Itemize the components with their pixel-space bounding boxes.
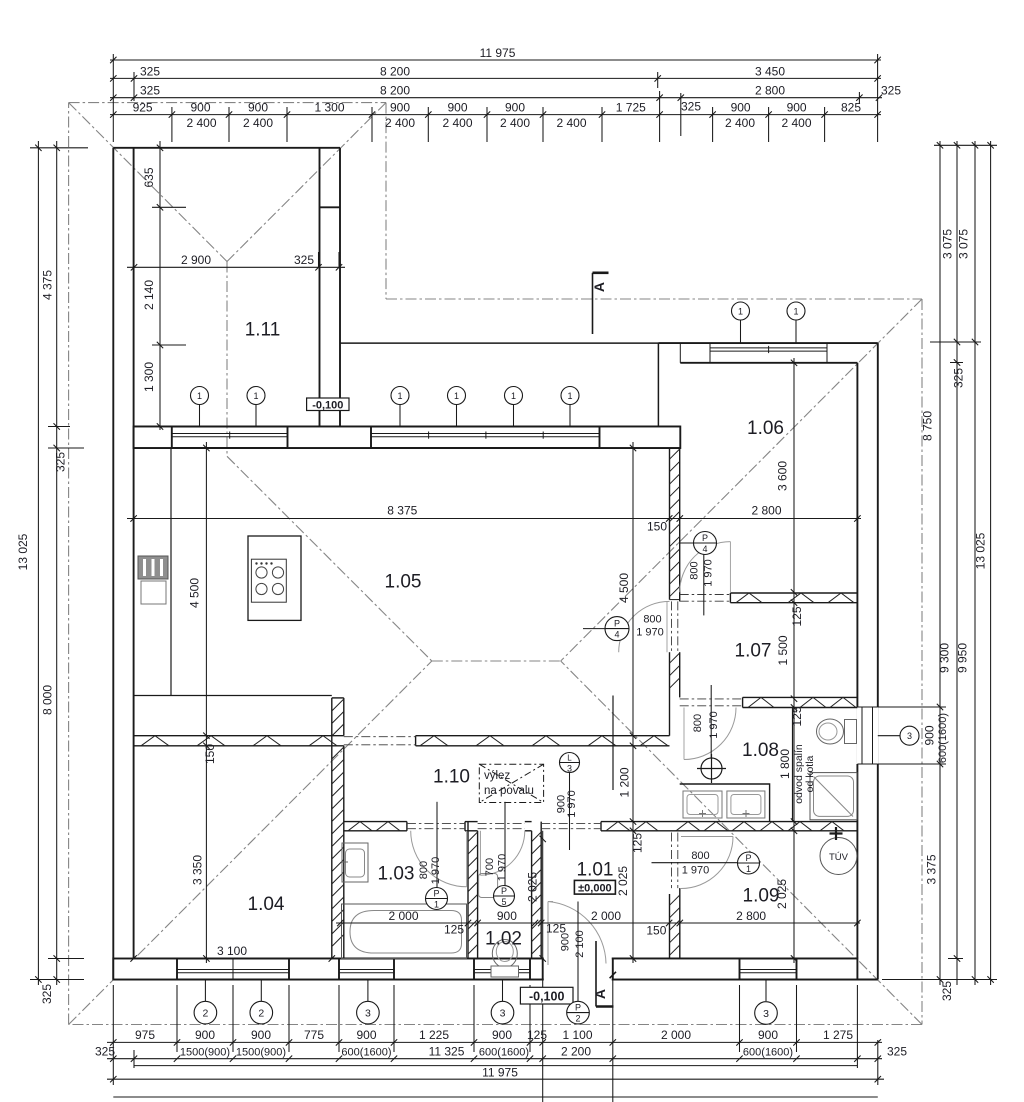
fridge vent slots — [145, 559, 162, 576]
ticks 3100 row on wall face — [130, 955, 335, 961]
svg-text:325: 325 — [54, 452, 68, 472]
svg-text:3: 3 — [907, 731, 912, 741]
svg-text:600(1600): 600(1600) — [743, 1047, 793, 1059]
boiler cross symbol — [830, 827, 843, 840]
partition 1.05/1.06 upper — [670, 448, 680, 601]
partition 1.05/1.07 lower — [670, 652, 680, 736]
svg-text:125: 125 — [790, 706, 804, 726]
svg-text:900: 900 — [248, 101, 268, 115]
left exterior wall inner face — [133, 148, 135, 959]
hatch partition column 1.05/1.10 — [332, 699, 344, 736]
svg-text:1 225: 1 225 — [419, 1028, 449, 1042]
left exterior wall outer face — [112, 148, 114, 980]
WALLS GROUP — [113, 148, 879, 981]
svg-text:900: 900 — [356, 1028, 376, 1042]
svg-text:1.05: 1.05 — [385, 572, 422, 593]
door arc 1.06-1.07 — [680, 542, 731, 593]
svg-text:P: P — [702, 533, 708, 543]
boiler TUV circle — [820, 838, 857, 875]
svg-text:1 970: 1 970 — [497, 854, 509, 882]
kitchen vertical dim 4500/150/3350 — [205, 442, 207, 963]
ticks right column1 — [937, 142, 943, 983]
flue divider wall 1.08 — [792, 708, 794, 822]
roof outline top edge of main block — [386, 298, 922, 300]
svg-text:2 025: 2 025 — [526, 872, 540, 902]
svg-text:1 200: 1 200 — [618, 767, 632, 797]
svg-text:900: 900 — [390, 101, 410, 115]
svg-text:P: P — [614, 619, 620, 629]
dim line top row3 8200+2800 — [110, 97, 882, 99]
svg-text:1: 1 — [434, 900, 439, 910]
ticks top row1 — [110, 57, 881, 63]
bottom dim line row3 — [134, 1065, 857, 1067]
svg-text:150: 150 — [203, 744, 217, 764]
right column dim line 13025 — [990, 141, 992, 985]
wing east wall joint line — [320, 206, 341, 208]
svg-text:600(1600): 600(1600) — [937, 713, 949, 763]
svg-text:1 970: 1 970 — [703, 559, 715, 587]
stove burners — [256, 567, 267, 578]
marker P4b leader — [583, 628, 605, 630]
window C glass lines — [710, 346, 827, 353]
svg-text:325: 325 — [40, 984, 54, 1004]
partition 1.01/1.09 — [670, 888, 680, 958]
svg-text:1 725: 1 725 — [616, 101, 646, 115]
svg-text:2 800: 2 800 — [736, 909, 766, 923]
svg-text:1 970: 1 970 — [430, 857, 442, 885]
bottom dim line row5 — [113, 1096, 878, 1098]
svg-text:125: 125 — [444, 923, 464, 937]
svg-text:±0,000: ±0,000 — [578, 883, 612, 895]
section top flag — [593, 273, 609, 334]
ticks wing 2900 — [131, 264, 342, 270]
door marker P4 a — [694, 532, 717, 555]
left vertical dim line 4375/325/8000 — [56, 141, 58, 985]
toilet 1.02 tank — [491, 966, 519, 977]
level box -0.100 entrance — [520, 987, 573, 1004]
ticks mid vertical dim — [630, 445, 636, 962]
ROOF GROUP — [69, 103, 922, 1025]
hatch corridor south east — [606, 822, 658, 831]
svg-text:2 400: 2 400 — [781, 116, 811, 130]
svg-text:1.02: 1.02 — [485, 929, 522, 950]
svg-text:3 075: 3 075 — [941, 229, 955, 259]
svg-text:4: 4 — [614, 630, 619, 640]
stove body — [251, 559, 286, 602]
svg-text:P: P — [575, 1003, 581, 1013]
FIXTURES GROUP — [138, 536, 857, 977]
svg-text:1 970: 1 970 — [566, 790, 578, 818]
svg-text:8 200: 8 200 — [380, 84, 410, 98]
svg-text:325: 325 — [881, 84, 901, 98]
svg-text:900: 900 — [923, 725, 937, 745]
opening lines door 1.05-1.07 — [672, 601, 678, 652]
svg-text:1 970: 1 970 — [636, 627, 664, 639]
hatch 1.02 east wall — [532, 832, 542, 954]
svg-text:2 000: 2 000 — [388, 909, 418, 923]
bottom extension bars — [113, 985, 878, 1085]
svg-text:3: 3 — [365, 1007, 371, 1019]
right column dim line 3075/9950 — [974, 141, 976, 985]
window marker 3 c bottom — [755, 1002, 778, 1025]
hatch partition 1.01/1.09 — [670, 895, 680, 955]
svg-text:325: 325 — [681, 100, 701, 114]
ticks 2025 on aux line — [540, 836, 546, 962]
svg-text:900: 900 — [190, 101, 210, 115]
svg-text:2 400: 2 400 — [500, 116, 530, 130]
svg-text:TÚV: TÚV — [829, 852, 849, 863]
dim line top row1 11975 — [110, 59, 881, 61]
kitchen island outline — [248, 536, 301, 620]
basin 1.08 left — [683, 791, 722, 818]
roof outline left edge — [68, 103, 70, 1025]
opening lines door 1.02 — [478, 824, 525, 829]
stove knob dots — [255, 562, 272, 564]
bottom window 1 glass lines — [177, 959, 233, 980]
svg-text:900: 900 — [758, 1028, 778, 1042]
window C jambs — [710, 343, 827, 363]
door marker P5 1.02 — [494, 886, 515, 907]
partition 1.07/1.08 — [743, 697, 858, 707]
svg-text:1.04: 1.04 — [248, 894, 285, 915]
door marker P2 entrance — [567, 1001, 590, 1024]
door arc entrance 1.01 — [548, 902, 606, 966]
svg-text:800: 800 — [689, 561, 701, 579]
svg-text:900: 900 — [492, 1028, 512, 1042]
svg-text:1.09: 1.09 — [743, 886, 780, 907]
hall north window-band inner face — [134, 447, 681, 449]
svg-text:3 100: 3 100 — [217, 944, 247, 958]
hatch partition 1.04/1.03 — [332, 747, 344, 947]
svg-text:4 375: 4 375 — [41, 270, 55, 300]
section bottom flag — [596, 941, 616, 1102]
partition 1.02 east wall — [532, 822, 542, 959]
svg-text:800: 800 — [692, 714, 704, 732]
hatch partition 1.05/1.07 lower — [670, 653, 680, 688]
kitchen counter west edge — [170, 448, 172, 696]
opening lines door 1.03 — [407, 824, 465, 829]
basin 1.08 right — [727, 791, 765, 818]
hall north band pier east — [600, 427, 681, 449]
kitchen counter front edge — [134, 695, 332, 697]
toilet 1.02 bowl — [492, 940, 517, 968]
svg-text:2 900: 2 900 — [181, 253, 211, 267]
svg-text:11 975: 11 975 — [482, 1066, 518, 1080]
svg-text:1 300: 1 300 — [142, 362, 156, 392]
shower tray inner — [814, 776, 854, 816]
dim line top row4 window axes — [110, 114, 881, 116]
svg-text:1: 1 — [738, 306, 743, 316]
svg-text:3 450: 3 450 — [755, 65, 785, 79]
hatch 1.02 west wall — [468, 832, 478, 954]
svg-text:2 000: 2 000 — [661, 1028, 691, 1042]
mid vertical dim 4500/1200/125/2025 — [632, 442, 634, 963]
right column dim line 8750/900/3375 — [939, 141, 941, 985]
opening lines corridor/hall — [344, 737, 416, 745]
svg-text:125: 125 — [527, 1028, 547, 1042]
svg-text:A: A — [592, 989, 608, 999]
DOORS GROUP — [344, 542, 743, 965]
toilet 1.08 bowl — [817, 719, 844, 744]
door marker L3 corridor — [560, 753, 580, 773]
bottom window 3 glass lines — [339, 959, 394, 980]
partition 1.04/1.03 — [332, 746, 344, 959]
partition corridor south mid part — [465, 822, 478, 831]
floor drain symbol 1.08 — [697, 754, 726, 783]
svg-text:od kotla: od kotla — [804, 755, 816, 792]
svg-text:1.06: 1.06 — [747, 418, 784, 439]
svg-text:2 140: 2 140 — [142, 280, 156, 310]
svg-text:325: 325 — [952, 368, 966, 388]
svg-text:700: 700 — [484, 858, 496, 876]
extension bars wing 2900 — [319, 252, 340, 267]
partition hall/corridor east part — [416, 736, 670, 746]
window A glass lines — [172, 432, 288, 439]
bottom dim line row1 — [107, 1041, 882, 1043]
hall north band pier west — [134, 427, 172, 449]
ticks top row3 — [110, 95, 882, 101]
left vertical dim line 13025 — [37, 141, 39, 985]
washbasin 1.03 — [342, 843, 368, 882]
washbasin 1.03 inner — [346, 849, 365, 877]
svg-text:900: 900 — [505, 101, 525, 115]
roof hip bottom-left — [69, 661, 432, 1025]
window D jambs — [857, 707, 877, 764]
bottom wall pier 4 — [530, 959, 543, 980]
roof ridge wing vertical — [226, 262, 228, 457]
window B glass lines — [371, 432, 600, 439]
svg-text:2 800: 2 800 — [755, 84, 785, 98]
door arc 1.07-1.08 — [684, 708, 736, 760]
svg-text:L: L — [567, 754, 572, 763]
bottom wall pier 1 — [113, 959, 177, 980]
svg-text:výlez: výlez — [484, 770, 510, 782]
svg-text:1 300: 1 300 — [314, 101, 344, 115]
svg-text:1: 1 — [746, 864, 751, 874]
roof outline right edge — [921, 299, 923, 1025]
right exterior wall inner face — [856, 363, 858, 959]
svg-text:na povalu: na povalu — [484, 785, 534, 797]
svg-text:4 500: 4 500 — [617, 573, 631, 603]
svg-text:2: 2 — [258, 1007, 264, 1019]
window marker 3 right wall — [900, 726, 919, 745]
roof outline top edge over wing — [69, 102, 386, 104]
ticks right column3 — [972, 142, 978, 983]
svg-text:-0,100: -0,100 — [529, 989, 564, 1003]
svg-text:900: 900 — [560, 933, 572, 951]
wing interior dim line 635/2140/1300 — [159, 141, 161, 430]
svg-text:150: 150 — [646, 924, 666, 938]
svg-text:1: 1 — [197, 391, 202, 401]
svg-text:1 500: 1 500 — [776, 635, 790, 665]
ticks right interior dim — [791, 360, 797, 962]
svg-text:1: 1 — [567, 391, 572, 401]
door marker P1 1.03 — [426, 888, 448, 910]
svg-text:150: 150 — [647, 520, 667, 534]
svg-text:1 970: 1 970 — [708, 711, 720, 739]
bottom window 5 glass lines — [740, 959, 797, 980]
svg-text:1: 1 — [397, 391, 402, 401]
svg-text:1.03: 1.03 — [378, 864, 415, 885]
svg-text:2: 2 — [575, 1014, 580, 1024]
svg-text:2: 2 — [202, 1007, 208, 1019]
door marker P4 b — [605, 617, 629, 641]
extension lines left — [30, 148, 88, 980]
partition corridor/1.01 east part — [601, 822, 670, 831]
ticks right column4 — [987, 142, 993, 983]
opening lines door 1.07-1.08 — [680, 699, 743, 706]
bottom exterior wall outer face — [113, 979, 878, 981]
window marker 2 a bottom — [194, 1001, 217, 1024]
marker P1a stem — [436, 802, 438, 888]
dim line 8375+150+2800 — [127, 518, 861, 520]
svg-text:9 300: 9 300 — [938, 643, 952, 673]
bottom dim line row2 — [107, 1058, 882, 1060]
opening lines door 1.09 — [672, 833, 678, 889]
ticks kitchen dim — [203, 445, 209, 962]
svg-text:125: 125 — [790, 606, 804, 626]
svg-text:3: 3 — [500, 1007, 506, 1019]
svg-text:1 970: 1 970 — [682, 865, 710, 877]
wing east wall inner face — [319, 148, 321, 427]
partition column 1.05/1.10 — [332, 698, 344, 746]
hall north band pier box — [288, 427, 372, 449]
washbasin 1.03 tap — [342, 861, 348, 863]
window marker 1 d — [448, 387, 466, 405]
terrace edge vertical — [657, 343, 659, 426]
roof valley wing to main — [227, 456, 432, 661]
right exterior wall outer face — [877, 343, 879, 979]
terrace edge horizontal — [340, 342, 658, 344]
marker P5 stem — [504, 802, 506, 886]
svg-text:9 950: 9 950 — [956, 643, 970, 673]
marker P1b leader — [652, 862, 738, 864]
right interior vertical dim 3600/125/1500/125/1800/125/2025 — [793, 358, 795, 963]
MARKER GROUP — [191, 302, 920, 1024]
svg-text:3 375: 3 375 — [925, 854, 939, 884]
window marker leader right — [878, 735, 900, 737]
bottom wall door gap white — [544, 957, 612, 980]
ticks top row2 — [110, 75, 881, 81]
svg-text:2 400: 2 400 — [725, 116, 755, 130]
window B jambs — [371, 427, 600, 449]
svg-text:2 400: 2 400 — [186, 116, 216, 130]
opening lines door 1.06-1.07 — [680, 595, 731, 602]
svg-text:900: 900 — [497, 909, 517, 923]
svg-text:3 350: 3 350 — [191, 855, 205, 885]
ticks top row4 — [110, 111, 881, 117]
svg-text:13 025: 13 025 — [16, 533, 30, 570]
marker L3 stem — [569, 773, 571, 851]
window marker 1 a — [191, 387, 209, 405]
svg-text:325: 325 — [887, 1045, 907, 1059]
room 1.06 north wall outer face — [658, 342, 877, 344]
svg-text:325: 325 — [95, 1045, 115, 1059]
svg-text:A: A — [591, 282, 607, 292]
toilet 1.08 tank — [845, 720, 857, 744]
svg-text:1 800: 1 800 — [778, 749, 792, 779]
roof hip wing right — [227, 103, 386, 262]
svg-text:2 100: 2 100 — [574, 930, 586, 958]
partition hall/corridor west part — [134, 736, 344, 746]
window A jambs — [172, 427, 288, 449]
window marker stems bottom — [205, 980, 766, 1002]
door arc 1.02 — [480, 831, 524, 875]
hatch partition hall/corridor east — [420, 736, 668, 746]
level box 0.000 — [574, 880, 615, 894]
washbasin 1.02 — [479, 874, 498, 898]
ticks bottom row1 — [110, 1039, 881, 1045]
partition corridor south at 1.02 east — [525, 822, 532, 831]
svg-text:800: 800 — [643, 614, 661, 626]
ticks right column2 — [954, 142, 960, 962]
window marker 1 h 1.06 — [787, 302, 805, 320]
svg-text:900: 900 — [787, 101, 807, 115]
door marker P1 b 1.09 — [738, 852, 760, 874]
svg-text:8 375: 8 375 — [387, 504, 417, 518]
window marker 3 b bottom — [491, 1001, 514, 1024]
svg-text:1.10: 1.10 — [433, 767, 470, 788]
window marker stems 1.06 — [741, 320, 797, 343]
window marker 3 a bottom — [357, 1001, 380, 1024]
ticks bottom row4 — [110, 1076, 881, 1082]
hatch partition 1.07/1.08 — [748, 697, 856, 707]
svg-text:3: 3 — [567, 764, 572, 774]
bottom window 4 glass lines — [474, 959, 530, 980]
bottom wall pier 6 — [797, 959, 858, 980]
basin taps — [699, 810, 750, 817]
partition corridor south west part — [344, 822, 407, 831]
ticks left column2 — [54, 145, 60, 983]
svg-text:1: 1 — [793, 306, 798, 316]
hatch partition 1.05/1.06 — [670, 449, 680, 597]
svg-text:3 600: 3 600 — [776, 461, 790, 491]
roof hip top-right — [561, 299, 922, 661]
window marker 1 g 1.06 — [732, 302, 750, 320]
svg-text:900: 900 — [731, 101, 751, 115]
svg-text:1.07: 1.07 — [735, 641, 772, 662]
svg-text:900: 900 — [447, 101, 467, 115]
level box -0.100 wing — [307, 398, 349, 411]
svg-text:825: 825 — [841, 101, 861, 115]
svg-text:600(1600): 600(1600) — [341, 1047, 391, 1059]
svg-text:8 000: 8 000 — [41, 685, 55, 715]
door arc 1.09 — [681, 837, 733, 889]
svg-text:775: 775 — [304, 1028, 324, 1042]
window marker 1 b — [247, 387, 265, 405]
svg-text:325: 325 — [140, 84, 160, 98]
svg-text:800: 800 — [691, 850, 709, 862]
svg-text:5: 5 — [501, 897, 506, 907]
door arc 1.05-1.07 — [619, 601, 670, 652]
roof outline right edge of wing section — [385, 103, 387, 299]
door marker P2 stem — [577, 902, 579, 1002]
svg-text:P: P — [501, 886, 507, 896]
svg-text:1 100: 1 100 — [562, 1028, 592, 1042]
svg-text:P: P — [745, 853, 751, 863]
bottom wall pier 5 — [613, 959, 740, 980]
marker P4a stem — [703, 554, 705, 615]
shower diagonal — [814, 777, 854, 817]
svg-text:600(1600): 600(1600) — [479, 1047, 529, 1059]
svg-text:11 975: 11 975 — [480, 46, 516, 60]
partition 1.08/1.09 — [670, 822, 858, 831]
roof hip bottom-right — [561, 661, 922, 1025]
svg-text:2 200: 2 200 — [561, 1045, 591, 1059]
svg-text:1.08: 1.08 — [742, 740, 779, 761]
window marker 1 f — [561, 387, 579, 405]
room 1.06 north wall cap lines — [679, 343, 681, 363]
